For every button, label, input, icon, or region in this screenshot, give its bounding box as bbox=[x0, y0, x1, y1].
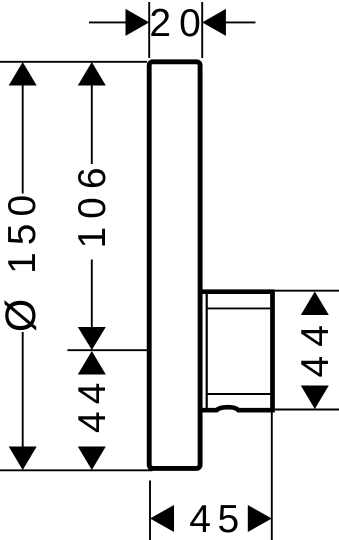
sleeve inner bottom line bbox=[207, 393, 273, 395]
svg-text:20: 20 bbox=[149, 2, 208, 45]
svg-text:44: 44 bbox=[71, 376, 114, 433]
dim 44 (right): bottom arrow bbox=[301, 386, 329, 410]
dim 150: bottom extension line bbox=[0, 469, 153, 471]
dim 44 (right): bottom extension line bbox=[275, 409, 339, 411]
svg-text:106: 106 bbox=[71, 159, 114, 248]
dim 106: lower line segment bbox=[91, 260, 93, 328]
dim 45: left extension line bbox=[149, 481, 151, 540]
plate outline (escutcheon side view) bbox=[149, 62, 200, 469]
dim 150: top extension line bbox=[0, 61, 147, 63]
svg-text:44: 44 bbox=[294, 316, 337, 377]
dim 20: left arrow bbox=[126, 9, 150, 36]
sleeve inner top line bbox=[207, 307, 273, 309]
sleeve inner vertical line bbox=[206, 293, 208, 410]
dim 45: left arrow bbox=[150, 505, 174, 532]
dim 106/44 shared extension line bbox=[67, 349, 147, 351]
dim 20: right arrow bbox=[202, 9, 226, 36]
dim 44 (right): top extension line bbox=[275, 290, 339, 292]
dim 150: top arrow bbox=[9, 62, 37, 86]
dim 45: right extension line bbox=[271, 413, 273, 540]
dim 150: bottom arrow bbox=[9, 447, 37, 471]
dim 20: right extension line bbox=[201, 2, 203, 58]
sleeve protrusion outline bbox=[199, 292, 273, 411]
dim 45: right arrow bbox=[248, 505, 272, 532]
dim 20: left extension line bbox=[148, 2, 150, 58]
dim 20: right leader line bbox=[226, 21, 256, 23]
dim 106: upper line segment bbox=[91, 85, 93, 164]
dim 44 (right): top arrow bbox=[301, 292, 329, 316]
svg-text:45: 45 bbox=[189, 498, 245, 540]
dim 150: upper line segment bbox=[22, 85, 24, 194]
dim 106: bottom arrow bbox=[78, 327, 106, 350]
svg-text:Ø 150: Ø 150 bbox=[0, 188, 45, 332]
dim 44 (middle): top arrow bbox=[78, 351, 106, 375]
dim 44 (middle): bottom arrow bbox=[78, 447, 106, 471]
dim 20: left leader line bbox=[89, 21, 126, 23]
dim 106: top arrow bbox=[78, 62, 106, 86]
dim 150: lower line segment bbox=[22, 332, 24, 447]
